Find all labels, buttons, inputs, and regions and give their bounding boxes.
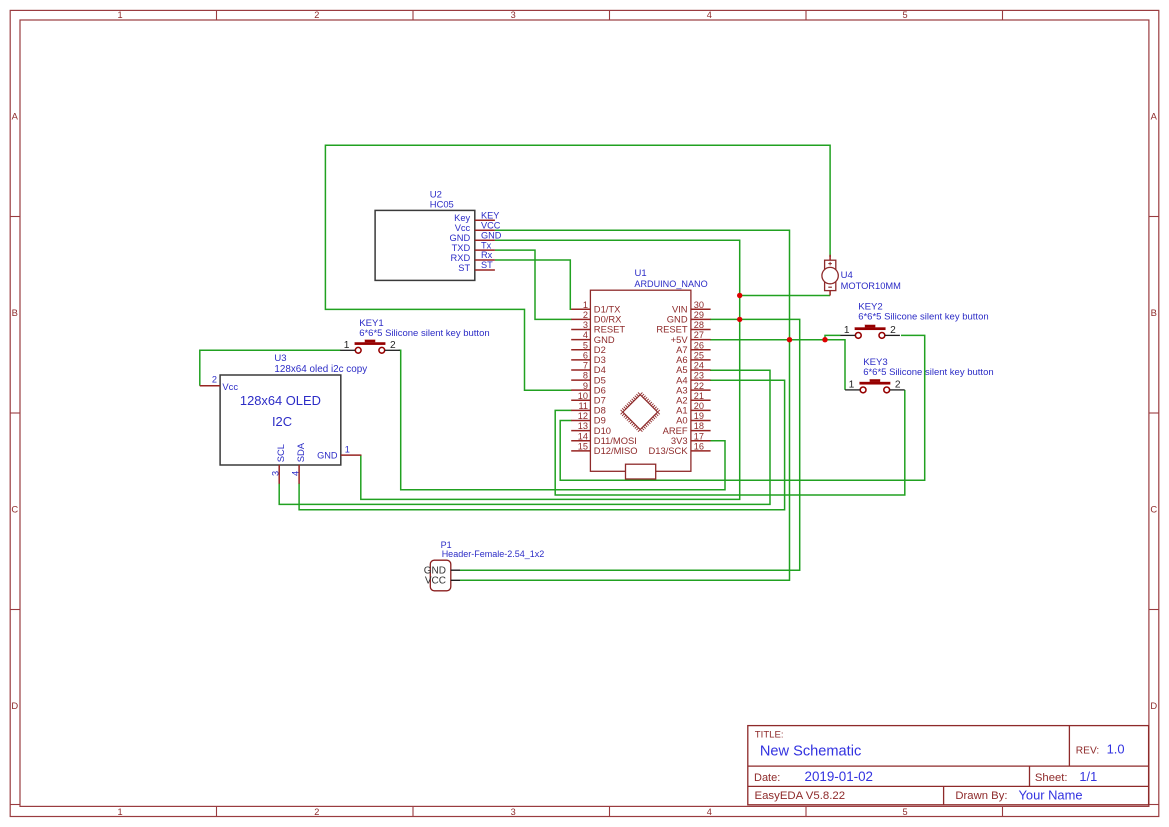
svg-text:23: 23: [694, 371, 704, 381]
wire U2 GND down to bus and U3 GND: [361, 240, 740, 499]
svg-text:Vcc: Vcc: [455, 223, 471, 233]
wire KEY1 pin2 to U1 3V3: [399, 350, 725, 489]
P1 pin leads: [451, 569, 460, 571]
svg-text:New Schematic: New Schematic: [760, 744, 861, 760]
svg-text:1: 1: [117, 10, 122, 20]
wire U2 VCC to +5V and P1 VCC: [460, 230, 790, 580]
svg-text:A: A: [12, 110, 19, 121]
svg-text:27: 27: [694, 330, 704, 340]
svg-text:128x64 oled i2c copy: 128x64 oled i2c copy: [274, 364, 367, 375]
svg-text:ARDUINO_NANO: ARDUINO_NANO: [634, 279, 707, 289]
svg-text:6: 6: [583, 350, 588, 360]
svg-text:RXD: RXD: [451, 253, 471, 263]
U3 body: [220, 375, 341, 465]
junction dot GND at motor branch: [737, 293, 742, 298]
U2 pin stubs: [475, 219, 495, 221]
svg-text:1/1: 1/1: [1079, 769, 1097, 784]
U4 minus mark: [828, 286, 832, 288]
svg-text:1: 1: [344, 340, 350, 351]
svg-text:15: 15: [578, 441, 588, 451]
svg-text:6*6*5 Silicone silent key butt: 6*6*5 Silicone silent key button: [863, 367, 993, 378]
svg-text:Key: Key: [454, 213, 470, 223]
svg-text:GND: GND: [450, 233, 471, 243]
U4 body: [825, 260, 836, 290]
svg-text:C: C: [11, 503, 18, 514]
svg-text:6*6*5 Silicone silent key butt: 6*6*5 Silicone silent key button: [359, 328, 489, 339]
svg-text:TXD: TXD: [452, 243, 471, 253]
svg-text:C: C: [1150, 503, 1157, 514]
wire GND branch to motor-bottom: [740, 295, 830, 297]
svg-text:4: 4: [583, 330, 588, 340]
svg-text:18: 18: [694, 421, 704, 431]
svg-text:MOTOR10MM: MOTOR10MM: [841, 281, 901, 291]
svg-text:7: 7: [583, 361, 588, 371]
svg-text:B: B: [12, 307, 18, 318]
svg-text:SCL: SCL: [275, 444, 286, 462]
svg-text:2: 2: [583, 310, 588, 320]
junction dot +5V at KEY2 branch: [822, 337, 827, 342]
wire +5V row to KEY3 pin1: [710, 340, 845, 390]
svg-text:19: 19: [694, 411, 704, 421]
svg-text:2: 2: [390, 340, 396, 351]
svg-text:28: 28: [694, 320, 704, 330]
svg-text:3: 3: [270, 471, 280, 476]
svg-text:2: 2: [212, 375, 217, 385]
svg-text:D12/MISO: D12/MISO: [594, 445, 638, 456]
svg-text:25: 25: [694, 350, 704, 360]
svg-text:SDA: SDA: [295, 442, 306, 462]
wire U2 Tx to U1 D0/RX: [495, 250, 572, 319]
svg-text:12: 12: [578, 411, 588, 421]
svg-text:20: 20: [694, 401, 704, 411]
svg-text:HC05: HC05: [430, 198, 454, 209]
svg-text:D: D: [1150, 700, 1157, 711]
svg-text:17: 17: [694, 431, 704, 441]
U3 pin 3 SCL stub: [278, 465, 280, 484]
wire motor-top to U1 D6 (net M+): [325, 145, 830, 390]
svg-text:A: A: [1151, 110, 1158, 121]
svg-text:4: 4: [707, 807, 712, 817]
svg-text:21: 21: [694, 391, 704, 401]
svg-text:1.0: 1.0: [1107, 742, 1125, 757]
svg-text:10: 10: [578, 391, 588, 401]
svg-text:D13/SCK: D13/SCK: [649, 445, 689, 456]
U4 bottom pin stub: [829, 291, 831, 296]
svg-text:29: 29: [694, 310, 704, 320]
svg-text:Vcc: Vcc: [222, 381, 238, 392]
wire U1 D8 to KEY3 pin2: [555, 390, 905, 495]
title block frame: [748, 726, 1149, 805]
wire U1 D9 to KEY2 pin2: [560, 335, 925, 480]
svg-text:2: 2: [314, 807, 319, 817]
svg-text:I2C: I2C: [272, 414, 292, 429]
svg-text:3: 3: [511, 807, 516, 817]
U4 plus mark: [828, 263, 832, 265]
ruler column ticks: [216, 10, 218, 20]
svg-text:8: 8: [583, 371, 588, 381]
svg-text:24: 24: [694, 361, 704, 371]
pushbutton KEY2: [855, 327, 886, 330]
U1 right pins 30-16: [691, 308, 711, 310]
svg-text:ST: ST: [481, 260, 493, 270]
svg-text:KEY: KEY: [481, 210, 499, 220]
wire U1 GND pin29 to P1 GND: [460, 319, 800, 570]
svg-text:1: 1: [849, 380, 855, 391]
svg-text:D: D: [11, 700, 18, 711]
junction dot GND at pin29 row: [737, 317, 742, 322]
svg-text:Sheet:: Sheet:: [1035, 772, 1068, 784]
svg-text:Header-Female-2.54_1x2: Header-Female-2.54_1x2: [442, 549, 545, 559]
svg-text:1: 1: [117, 807, 122, 817]
svg-text:5: 5: [583, 340, 588, 350]
svg-text:ST: ST: [458, 263, 470, 273]
ruler row ticks: [10, 216, 20, 218]
svg-text:26: 26: [694, 340, 704, 350]
svg-text:4: 4: [290, 471, 300, 476]
P1 body: [430, 560, 451, 591]
U3 pin 2 Vcc stub: [200, 385, 220, 387]
wire KEY1 pin1 to U3 Vcc: [200, 350, 341, 385]
wire U1 A5 to U3 SCL: [279, 370, 770, 504]
svg-text:128x64 OLED: 128x64 OLED: [240, 393, 321, 408]
svg-text:6*6*5 Silicone silent key butt: 6*6*5 Silicone silent key button: [858, 311, 988, 322]
svg-text:Rx: Rx: [481, 250, 493, 260]
svg-text:EasyEDA V5.8.22: EasyEDA V5.8.22: [755, 790, 846, 802]
svg-text:1: 1: [345, 444, 350, 454]
svg-text:9: 9: [583, 381, 588, 391]
svg-text:U1: U1: [635, 268, 647, 279]
svg-text:14: 14: [578, 431, 588, 441]
svg-text:REV:: REV:: [1076, 745, 1099, 756]
svg-text:3: 3: [511, 10, 516, 20]
U3 pin 1 GND stub: [341, 454, 362, 456]
svg-text:Date:: Date:: [754, 772, 780, 784]
svg-text:30: 30: [694, 300, 704, 310]
svg-text:5: 5: [902, 10, 907, 20]
U4 top pin stub: [829, 255, 831, 261]
svg-text:2: 2: [895, 380, 901, 391]
U2 body: [375, 210, 475, 280]
svg-text:1: 1: [844, 325, 850, 336]
U3 pin 4 SDA stub: [298, 465, 300, 484]
svg-text:22: 22: [694, 381, 704, 391]
svg-text:16: 16: [694, 441, 704, 451]
wire U1 A4 to U3 SDA: [299, 380, 784, 510]
wire U2 Rx to U1 D1/TX: [495, 260, 572, 309]
U1 MCU chip glyph: [623, 395, 658, 430]
svg-text:11: 11: [578, 401, 588, 411]
U1 USB connector: [626, 464, 656, 479]
svg-text:VCC: VCC: [425, 576, 446, 587]
pushbutton KEY1: [355, 342, 386, 345]
U1 left pins 1-15: [571, 308, 590, 310]
svg-text:GND: GND: [317, 451, 338, 461]
svg-text:U4: U4: [841, 270, 853, 281]
svg-text:1: 1: [583, 300, 588, 310]
svg-text:Your Name: Your Name: [1019, 787, 1083, 802]
svg-text:2: 2: [890, 325, 896, 336]
svg-text:13: 13: [578, 421, 588, 431]
svg-text:4: 4: [707, 10, 712, 20]
svg-text:Drawn By:: Drawn By:: [955, 790, 1007, 802]
svg-text:U3: U3: [274, 353, 286, 364]
svg-text:2019-01-02: 2019-01-02: [805, 769, 874, 784]
svg-text:GND: GND: [481, 230, 502, 240]
svg-text:3: 3: [583, 320, 588, 330]
svg-text:2: 2: [314, 10, 319, 20]
pushbutton KEY3: [860, 382, 891, 385]
wire +5V branch to KEY2 pin1: [825, 335, 840, 339]
svg-text:Tx: Tx: [481, 240, 492, 250]
U1 body: [590, 290, 691, 471]
svg-text:VCC: VCC: [481, 220, 501, 230]
svg-text:B: B: [1151, 307, 1157, 318]
junction dot VCC at +5V row: [787, 337, 792, 342]
svg-text:5: 5: [902, 807, 907, 817]
svg-text:TITLE:: TITLE:: [755, 729, 784, 740]
